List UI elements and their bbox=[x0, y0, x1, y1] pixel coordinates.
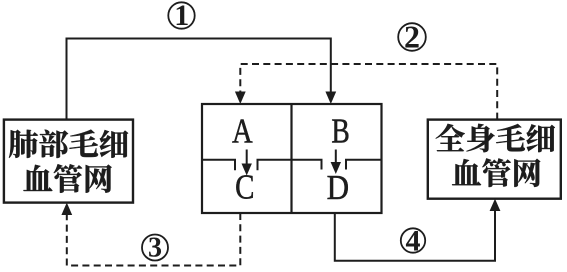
svg-text:D: D bbox=[327, 170, 349, 208]
wire: B/D divider left segment with down tick bbox=[292, 160, 322, 170]
label: circled 3 bbox=[142, 233, 168, 264]
wire: path 4 solid (bottom of D, down, right, up into right box bottom) bbox=[335, 210, 495, 261]
wire: A/C divider left segment with down tick bbox=[202, 160, 235, 171]
label text: 肺部毛细 (line 1 of left box) bbox=[9, 130, 128, 158]
wire: heart vertical divider bbox=[290, 104, 292, 213]
wire: path 2 dashed (right box top, up, left, down into A) bbox=[240, 64, 497, 120]
svg-text:A: A bbox=[232, 112, 253, 150]
arrow: B to D bbox=[331, 150, 341, 175]
label text: 全身毛细 (line 1 of right box) bbox=[436, 124, 555, 152]
wire: B/D divider right segment with down tick bbox=[346, 160, 382, 170]
svg-text:B: B bbox=[331, 112, 349, 151]
wire: path 1 solid (left box top, over the top, down into B) bbox=[67, 39, 331, 120]
wire: path 3 dashed (bottom of C, down, left, up into left box bottom) bbox=[67, 213, 241, 266]
arrow: path 3 arrowhead into bottom of left box bbox=[61, 203, 72, 215]
arrow: path 1 arrowhead into top of B bbox=[325, 92, 336, 105]
label text: 血管网 (line 2 of left box) bbox=[23, 164, 111, 193]
box: heart outer rectangle (chambers A B C D) bbox=[202, 104, 382, 213]
box: systemic capillary network (right) bbox=[428, 120, 561, 199]
svg-text:2: 2 bbox=[404, 19, 420, 55]
svg-text:3: 3 bbox=[148, 233, 162, 264]
svg-text:C: C bbox=[235, 168, 254, 206]
label text: 血管网 (line 2 of right box) bbox=[452, 158, 540, 187]
arrow: path 4 arrowhead into bottom of right box bbox=[490, 199, 501, 211]
svg-text:4: 4 bbox=[406, 224, 421, 257]
arrow: path 2 arrowhead into top of A bbox=[235, 92, 246, 105]
label: circled 4 bbox=[401, 224, 425, 257]
wire: A/C divider right segment with down tick bbox=[258, 160, 292, 171]
label: circled 2 bbox=[398, 19, 426, 55]
box: pulmonary capillary network (left) bbox=[4, 120, 133, 203]
label: circled 1 bbox=[168, 0, 194, 32]
svg-text:1: 1 bbox=[174, 0, 189, 32]
arrow: A to C bbox=[242, 150, 252, 176]
